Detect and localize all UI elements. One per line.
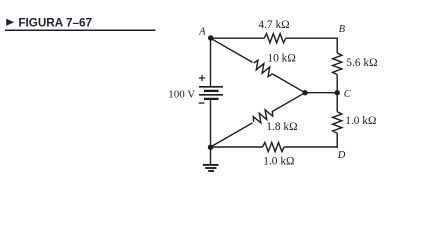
svg-text:B: B — [339, 24, 346, 35]
battery plus sign — [199, 75, 205, 81]
wire left rail: node A down to battery — [210, 38, 212, 86]
wire middle node to node C — [305, 92, 337, 94]
svg-text:A: A — [198, 26, 206, 37]
svg-text:1.0 kΩ: 1.0 kΩ — [345, 115, 376, 127]
svg-text:1.8 kΩ: 1.8 kΩ — [266, 121, 297, 133]
resistor R 4.7 kOhm (top) — [264, 34, 286, 43]
svg-text:D: D — [337, 150, 346, 161]
wire top: node A to corner B — [211, 37, 265, 39]
figure title arrow — [6, 19, 14, 26]
wire right: node C down to resistor, resistor to corner D — [336, 93, 338, 112]
resistor R 1.8 kOhm (diagonal) — [253, 110, 272, 123]
wire right: B down to resistor, resistor to node C — [336, 38, 338, 54]
battery minus sign — [199, 102, 205, 104]
title underline rule — [5, 29, 155, 31]
resistor R 10 kOhm (diagonal) — [254, 60, 273, 76]
svg-text:5.6 kΩ: 5.6 kΩ — [346, 57, 377, 69]
node C junction dot — [335, 90, 340, 95]
svg-text:4.7 kΩ: 4.7 kΩ — [258, 19, 289, 31]
node A junction dot — [208, 35, 213, 40]
svg-text:10 kΩ: 10 kΩ — [267, 53, 295, 65]
battery VS 100 V — [199, 87, 223, 99]
node (middle) junction dot — [302, 90, 307, 95]
wire bottom: corner D to bottom-left node — [284, 146, 338, 148]
svg-text:100 V: 100 V — [168, 88, 195, 100]
resistor R 1.0 kOhm (right lower) — [333, 112, 342, 134]
svg-text:FIGURA 7–67: FIGURA 7–67 — [18, 17, 92, 30]
diagonal wire A to middle node (10k branch) — [211, 38, 253, 62]
wire left rail: battery down to bottom-left node — [210, 100, 212, 148]
node (bottom-left) junction dot — [208, 145, 213, 150]
svg-text:1.0 kΩ: 1.0 kΩ — [263, 156, 294, 168]
svg-text:C: C — [344, 89, 352, 100]
ground — [203, 147, 219, 171]
diagonal wire bottom-left node to middle node (1.8k branch) — [211, 123, 253, 147]
resistor R 1.0 kOhm (bottom) — [263, 142, 285, 151]
resistor R 5.6 kOhm (right upper) — [333, 53, 342, 75]
